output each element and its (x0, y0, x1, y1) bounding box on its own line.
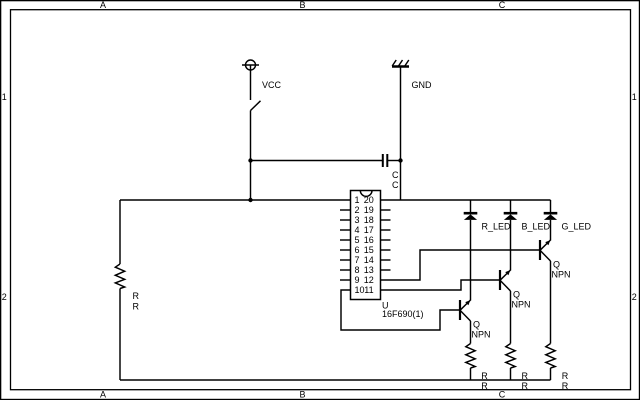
wire node VCC to capacitor (251, 160, 383, 162)
svg-text:5: 5 (355, 235, 360, 245)
resistor R4 (under Q3) (546, 344, 555, 369)
svg-text:15: 15 (364, 245, 374, 255)
pin 16 stub (381, 239, 391, 241)
svg-text:Q: Q (473, 320, 480, 330)
wire R2 to rail (470, 368, 472, 380)
svg-text:R: R (562, 381, 569, 391)
IC pin numbers (355, 195, 374, 295)
svg-text:R: R (522, 381, 529, 391)
svg-text:B_LED: B_LED (522, 222, 551, 232)
wire left resistor to bottom rail (119, 289, 121, 381)
VCC power symbol (242, 60, 259, 100)
svg-text:7: 7 (355, 255, 360, 265)
svg-text:R: R (481, 381, 488, 391)
svg-text:R_LED: R_LED (482, 222, 512, 232)
svg-text:VCC: VCC (262, 80, 282, 90)
svg-text:12: 12 (364, 275, 374, 285)
transistor Q3 NPN (540, 240, 551, 344)
LED G_LED (544, 200, 558, 241)
pin 17 stub (381, 229, 391, 231)
GND symbol (392, 60, 409, 67)
junction node at cap/GND (398, 158, 402, 162)
pin 18 stub (381, 219, 391, 221)
svg-text:A: A (100, 0, 106, 10)
svg-text:6: 6 (355, 245, 360, 255)
svg-text:14: 14 (364, 255, 374, 265)
svg-text:B: B (299, 0, 305, 10)
svg-text:R: R (481, 371, 488, 381)
svg-text:4: 4 (355, 225, 360, 235)
pin 5 stub (340, 239, 351, 241)
transistor Q2 NPN (500, 270, 511, 344)
pin 12 wire to Q3 base (381, 250, 540, 280)
svg-text:8: 8 (355, 265, 360, 275)
svg-text:1: 1 (355, 195, 360, 205)
svg-text:G_LED: G_LED (562, 222, 592, 232)
svg-text:Q: Q (553, 260, 560, 270)
svg-text:R: R (133, 302, 140, 312)
pin 11 wire to Q2 base (381, 280, 500, 290)
wire pin20 to LED rail (381, 199, 551, 201)
svg-text:2: 2 (355, 205, 360, 215)
svg-text:C: C (499, 390, 506, 400)
pin 13 stub (381, 269, 391, 271)
capacitor C1 (383, 154, 401, 167)
pin 6 stub (340, 249, 351, 251)
svg-text:C: C (392, 180, 399, 190)
transistor Q1 NPN (460, 300, 471, 344)
svg-text:10: 10 (355, 285, 365, 295)
pin 2 stub (340, 209, 351, 211)
svg-text:11: 11 (364, 285, 373, 295)
bottom rail wire (120, 379, 551, 381)
wire R3 to rail (510, 368, 512, 380)
pin 7 stub (340, 259, 351, 261)
svg-text:19: 19 (364, 205, 374, 215)
wire R4 to rail (550, 368, 552, 380)
svg-text:1: 1 (632, 92, 637, 102)
pin 14 stub (381, 259, 391, 261)
LED R_LED (464, 200, 478, 301)
svg-text:16F690(1): 16F690(1) (382, 309, 424, 319)
resistor R1 left (115, 264, 124, 289)
svg-text:1: 1 (2, 92, 7, 102)
resistor R2 (under Q1) (466, 344, 475, 369)
svg-text:3: 3 (355, 215, 360, 225)
svg-text:C: C (392, 170, 399, 180)
wire left drop (119, 200, 121, 264)
resistor R3 (under Q2) (506, 344, 515, 369)
svg-text:9: 9 (355, 275, 360, 285)
junction node at VCC/cap (248, 158, 252, 162)
pin 4 stub (340, 229, 351, 231)
svg-text:NPN: NPN (552, 270, 571, 280)
svg-text:R: R (133, 291, 140, 301)
svg-text:GND: GND (412, 80, 433, 90)
svg-text:NPN: NPN (472, 330, 491, 340)
svg-text:C: C (499, 0, 506, 10)
wire VCC down to node (250, 111, 252, 201)
svg-text:NPN: NPN (512, 300, 531, 310)
wire GND down (400, 67, 402, 200)
svg-text:18: 18 (364, 215, 374, 225)
pin 15 stub (381, 249, 391, 251)
svg-text:A: A (100, 390, 106, 400)
svg-text:17: 17 (364, 225, 374, 235)
svg-text:R: R (522, 371, 529, 381)
wire pin1 rail (120, 199, 351, 201)
svg-text:13: 13 (364, 265, 374, 275)
svg-text:2: 2 (632, 292, 637, 302)
svg-text:Q: Q (513, 290, 520, 300)
svg-text:B: B (299, 390, 305, 400)
pin 19 stub (381, 209, 391, 211)
LED B_LED (504, 200, 518, 271)
pin 9 stub (340, 279, 351, 281)
pin 3 stub (340, 219, 351, 221)
svg-text:R: R (562, 371, 569, 381)
junction node at VCC/pin1 rail (248, 198, 252, 202)
pin 10 wire to Q1 base (341, 290, 459, 330)
svg-text:16: 16 (364, 235, 374, 245)
svg-text:2: 2 (2, 292, 7, 302)
svg-text:20: 20 (364, 195, 374, 205)
IC U1 16F690 body (351, 191, 381, 300)
pin 8 stub (340, 269, 351, 271)
switch blade SW1 (251, 101, 261, 111)
